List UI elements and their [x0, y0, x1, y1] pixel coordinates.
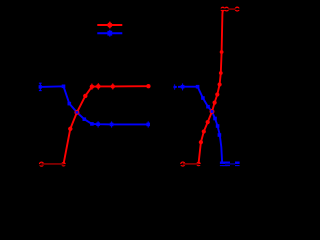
right plot red marker b1: [181, 162, 185, 166]
right plot blue first dim marker: [173, 84, 175, 89]
right plot blue bottom marker s3: [225, 162, 230, 167]
legend blue square marker: [107, 31, 112, 36]
right plot red ring at crossing: [210, 110, 214, 114]
bottom spine band right plot: [177, 164, 263, 165]
left plot red marker p1: [40, 162, 44, 166]
right plot blue marker q5: [206, 105, 210, 109]
left plot red marker p2: [61, 162, 66, 167]
top spine band right plot: [177, 8, 263, 10]
legend blue handle line: [97, 32, 122, 34]
right plot red line: [199, 9, 223, 164]
right plot blue marker q2: [181, 83, 185, 90]
right plot red marker m11: [220, 50, 224, 54]
left plot blue marker p8: [110, 121, 114, 127]
left plot blue line: [40, 86, 148, 124]
right plot blue marker q7: [213, 117, 217, 121]
right plot blue marker q4: [201, 96, 205, 100]
left plot red line: [64, 86, 149, 164]
legend blue error tick: [109, 30, 111, 37]
right plot red marker m4: [202, 129, 206, 133]
legend red circle marker: [107, 22, 112, 27]
left plot red ring at crossing: [75, 111, 79, 115]
right plot red marker m9: [218, 82, 222, 86]
left plot red marker p8: [111, 83, 115, 89]
right plot red marker m5: [206, 120, 210, 124]
left plot red marker p5: [83, 94, 87, 98]
right plot blue marker q3: [196, 85, 200, 89]
right plot red marker b2: [196, 162, 201, 167]
left spine band right plot: [177, 9, 178, 165]
left plot red marker p3: [68, 127, 72, 131]
right plot red top marker t2: [225, 7, 229, 11]
right plot blue marker q9: [218, 133, 222, 137]
left plot red marker p6: [90, 84, 94, 90]
left plot red marker p7: [96, 83, 101, 90]
left plot red marker p9: [146, 84, 150, 88]
right plot blue marker q8: [216, 124, 220, 128]
left plot blue error bar point1: [39, 83, 42, 90]
right plot red dark top segment: [228, 8, 235, 10]
right plot red top marker t3: [235, 7, 239, 11]
right plot blue dark bottom segment: [225, 163, 235, 165]
left plot blue square at crossing: [76, 111, 79, 114]
right plot red marker m3: [199, 140, 203, 144]
right plot blue line: [175, 87, 223, 164]
left plot blue marker p9: [146, 121, 150, 127]
right plot red dark bottom segment: [183, 163, 199, 165]
right plot red marker m7: [213, 101, 217, 105]
left plot blue marker p2: [62, 85, 66, 89]
left plot red dark bottom segment: [42, 163, 64, 165]
bottom spine band left plot: [30, 164, 165, 165]
left plot blue marker p3: [68, 102, 72, 106]
right plot blue square at crossing: [211, 110, 214, 113]
left plot blue marker p7: [96, 121, 100, 127]
right plot red marker m8: [215, 92, 219, 96]
left plot blue marker p6: [90, 122, 94, 126]
legend red error tick: [109, 22, 111, 29]
right plot blue bottom marker s4: [235, 162, 240, 167]
left plot blue marker p5: [83, 117, 87, 121]
left plot blue marker p1: [39, 85, 42, 88]
right plot red marker m10: [219, 71, 223, 75]
legend red handle line: [97, 24, 122, 26]
right plot red top marker t1: [221, 7, 225, 11]
right plot blue bottom marker s1: [220, 162, 225, 167]
right plot blue bottom marker s2: [223, 162, 228, 167]
